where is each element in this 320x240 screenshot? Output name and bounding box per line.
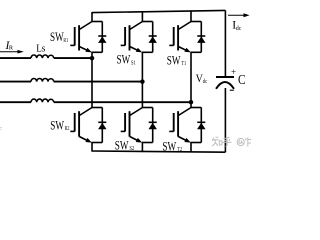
svg-text:dc: dc xyxy=(236,26,242,32)
svg-text:S2: S2 xyxy=(129,146,134,152)
svg-text:SW: SW xyxy=(167,53,181,67)
svg-text:Ls: Ls xyxy=(36,44,45,55)
svg-text:R2: R2 xyxy=(65,126,70,132)
svg-text:T2: T2 xyxy=(177,147,182,153)
svg-text:T1: T1 xyxy=(181,61,186,67)
svg-text:C: C xyxy=(238,72,246,87)
svg-text:S1: S1 xyxy=(131,60,136,66)
svg-text:+: + xyxy=(231,67,236,77)
svg-text:R1: R1 xyxy=(63,38,68,44)
svg-text:SW: SW xyxy=(50,30,64,44)
svg-text:dc: dc xyxy=(203,78,207,85)
svg-text:SW: SW xyxy=(115,138,129,152)
svg-text:SW: SW xyxy=(162,139,176,153)
svg-text:SW: SW xyxy=(117,53,131,67)
svg-text:SW: SW xyxy=(50,118,64,132)
svg-text:R: R xyxy=(9,45,14,52)
